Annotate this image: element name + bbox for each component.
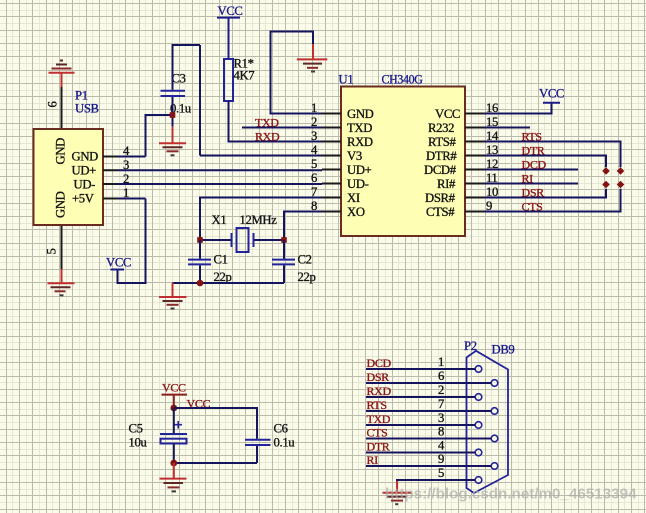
wire DSR# pin10 from inner vertical xyxy=(484,189,606,198)
svg-text:DSR: DSR xyxy=(367,370,390,384)
svg-text:12MHz: 12MHz xyxy=(240,213,278,227)
svg-text:VCC: VCC xyxy=(435,107,460,121)
svg-text:VCC: VCC xyxy=(539,87,564,101)
ground under C3 xyxy=(159,126,186,155)
svg-text:4: 4 xyxy=(311,143,318,157)
svg-text:C5: C5 xyxy=(129,422,143,436)
junction diamond inner top xyxy=(602,167,610,175)
svg-text:5: 5 xyxy=(311,157,317,171)
wire C3 bottom to junction xyxy=(172,97,174,128)
svg-text:RTS: RTS xyxy=(522,130,542,144)
junction diamond outer top xyxy=(617,167,625,175)
ground under C5 xyxy=(160,463,187,491)
svg-text:RTS: RTS xyxy=(367,398,387,412)
capacitor C2 xyxy=(272,260,295,265)
wire R232 stub pin15 xyxy=(484,127,530,129)
svg-text:DCD#: DCD# xyxy=(424,163,457,177)
wire C6 bottom to rail xyxy=(256,446,258,463)
svg-text:RXD: RXD xyxy=(255,130,280,144)
svg-text:X1: X1 xyxy=(212,213,227,227)
svg-text:5: 5 xyxy=(45,249,59,255)
svg-text:C2: C2 xyxy=(298,253,312,267)
svg-text:DCD: DCD xyxy=(522,158,547,172)
wire DTR row xyxy=(366,452,475,454)
svg-text:RXD: RXD xyxy=(367,384,392,398)
svg-text:GND: GND xyxy=(347,107,374,121)
wire VCC rail to C6 xyxy=(174,408,257,439)
op-amp U1 body (IC CH340G) xyxy=(341,87,465,237)
wire P1 GND to C3 bottom node xyxy=(117,115,173,157)
DB9 hole pin6 xyxy=(491,380,498,387)
junction C1 rail xyxy=(197,280,204,287)
svg-text:RI#: RI# xyxy=(437,177,456,191)
wire TXD row xyxy=(366,424,475,426)
svg-text:GND: GND xyxy=(54,138,68,165)
svg-text:22p: 22p xyxy=(214,270,232,284)
svg-text:CH340G: CH340G xyxy=(382,73,423,87)
svg-text:DTR: DTR xyxy=(522,144,545,158)
wire P1 pin6 to ground xyxy=(61,87,63,129)
svg-text:TXD: TXD xyxy=(367,412,391,426)
DB9 hole pin8 xyxy=(491,435,498,442)
DB9 hole pin2 xyxy=(475,394,482,401)
ground under P1 xyxy=(48,269,75,295)
DB9 hole pin9 xyxy=(491,463,498,470)
junction diamond inner bottom xyxy=(602,181,610,189)
svg-text:DCD: DCD xyxy=(367,356,392,370)
DB9 hole pin1 xyxy=(475,366,482,373)
svg-text:XO: XO xyxy=(347,205,365,219)
ground (inverted, above P1 pin 6) xyxy=(49,61,75,88)
wire VCC node to C5 xyxy=(173,408,175,433)
U1 left pin stubs xyxy=(322,114,341,212)
svg-text:2: 2 xyxy=(438,383,444,397)
svg-text:DSR#: DSR# xyxy=(425,191,456,205)
wire DCD row xyxy=(366,368,475,370)
svg-text:UD+: UD+ xyxy=(72,164,97,178)
power symbol VCC near P1 xyxy=(106,256,131,270)
wire R1 bottom to RXD row xyxy=(229,101,323,142)
svg-text:GND: GND xyxy=(54,191,68,218)
wire P1 pin5 down xyxy=(61,226,63,270)
wire crystal left to C1 xyxy=(199,240,201,259)
wire VCC pin16 xyxy=(484,103,552,114)
DB9 hole pin5 xyxy=(475,477,482,484)
svg-text:V3: V3 xyxy=(347,149,362,163)
svg-text:3: 3 xyxy=(438,411,444,425)
U1 right pin stubs xyxy=(465,114,484,212)
wire crystal row left xyxy=(200,239,231,241)
svg-text:DB9: DB9 xyxy=(492,343,515,357)
svg-text:U1: U1 xyxy=(339,73,354,87)
svg-text:4: 4 xyxy=(438,439,445,453)
power symbol VCC right of U1 xyxy=(539,87,564,103)
svg-text:1: 1 xyxy=(438,355,444,369)
ground top right of loop xyxy=(297,44,328,72)
capacitor C6 xyxy=(245,440,271,445)
svg-text:5: 5 xyxy=(438,466,444,480)
svg-text:RTS#: RTS# xyxy=(428,135,456,149)
connector P1 body xyxy=(34,129,104,225)
junction C5 bottom node xyxy=(170,460,177,467)
svg-text:4K7: 4K7 xyxy=(234,69,255,83)
svg-text:P1: P1 xyxy=(75,89,88,103)
svg-text:8: 8 xyxy=(438,425,444,439)
svg-text:9: 9 xyxy=(438,452,444,466)
wire DTR# pin13 to inner vertical xyxy=(484,156,606,168)
svg-text:UD+: UD+ xyxy=(347,163,372,177)
svg-text:7: 7 xyxy=(438,397,444,411)
svg-text:C6: C6 xyxy=(274,422,288,436)
svg-text:C1: C1 xyxy=(214,253,228,267)
svg-text:TXD: TXD xyxy=(255,116,279,130)
ground under P2 xyxy=(383,481,412,504)
svg-text:C3: C3 xyxy=(172,72,186,86)
svg-text:VCC: VCC xyxy=(162,381,186,395)
wire C3 top to V3 row xyxy=(173,45,323,156)
capacitor C1 xyxy=(188,260,211,265)
svg-text:RI: RI xyxy=(367,453,379,467)
capacitor C3 xyxy=(161,91,186,96)
svg-text:UD-: UD- xyxy=(74,178,96,192)
svg-text:0.1u: 0.1u xyxy=(274,436,296,450)
resistor R1 xyxy=(224,59,233,101)
power symbol VCC above C5 (red) xyxy=(162,381,188,409)
wire crystal row right xyxy=(255,239,285,241)
junction crystal left xyxy=(197,237,203,243)
pin stubs P1 right side xyxy=(103,157,117,199)
wire crystal right to C2 xyxy=(283,240,285,259)
svg-text:+5V: +5V xyxy=(72,192,95,206)
svg-text:6: 6 xyxy=(46,102,60,108)
wire DCD# pin12 stub xyxy=(484,169,578,171)
wire DSR row xyxy=(366,382,491,384)
wire pin5 row with ground drop xyxy=(397,480,475,482)
wire UD+ long run to U1 pin5 xyxy=(117,169,322,171)
svg-text:RI: RI xyxy=(522,172,534,186)
svg-text:DSR: DSR xyxy=(522,186,545,200)
svg-text:1: 1 xyxy=(311,101,317,115)
wire RXD row xyxy=(366,396,475,398)
wire RTS# pin14 to outer vertical xyxy=(484,142,621,168)
svg-text:CTS: CTS xyxy=(522,200,543,214)
crystal X1 xyxy=(232,228,254,252)
wire CTS# pin9 from outer vertical xyxy=(484,189,621,212)
junction C3 bottom xyxy=(170,112,176,118)
wire C1 bottom to rail xyxy=(199,265,201,283)
svg-text:VCC: VCC xyxy=(218,4,243,18)
capacitor C5 xyxy=(160,434,187,444)
svg-text:RXD: RXD xyxy=(347,135,373,149)
wire RI row xyxy=(366,465,491,467)
svg-text:3: 3 xyxy=(311,129,317,143)
svg-text:https://blog.csdn.net/m0_46513: https://blog.csdn.net/m0_46513394 xyxy=(385,486,637,503)
svg-text:GND: GND xyxy=(72,150,99,164)
wire UD- long run to U1 pin6 xyxy=(117,183,322,185)
svg-text:UD-: UD- xyxy=(347,177,369,191)
wire bottom rail C5 C6 xyxy=(174,462,257,464)
ground under crystal rail xyxy=(159,283,187,309)
wire C5 bottom to rail xyxy=(173,444,175,464)
svg-text:DTR#: DTR# xyxy=(426,149,457,163)
wire CTS row xyxy=(366,438,491,440)
junction VCC node xyxy=(170,405,177,412)
svg-text:22p: 22p xyxy=(298,270,316,284)
svg-text:2: 2 xyxy=(311,115,317,129)
capacitor C5 plus sign xyxy=(175,421,183,429)
wire XO pin8 to crystal right xyxy=(284,212,322,241)
svg-text:XI: XI xyxy=(347,191,360,205)
connector P2 DB9 body xyxy=(467,351,509,493)
svg-text:6: 6 xyxy=(311,171,317,185)
svg-text:USB: USB xyxy=(75,102,99,116)
wire RI# pin11 stub xyxy=(484,183,578,185)
svg-text:CTS#: CTS# xyxy=(426,205,455,219)
DB9 hole pin3 xyxy=(475,422,482,429)
svg-text:6: 6 xyxy=(438,369,444,383)
wire RTS row xyxy=(366,410,491,412)
DB9 hole pin7 xyxy=(491,408,498,415)
wire TXD stub xyxy=(242,127,322,129)
junction crystal right xyxy=(281,237,287,243)
wire ground rail under crystal xyxy=(173,282,285,284)
svg-text:DTR: DTR xyxy=(367,440,390,454)
wire U1 pin1 GND loop xyxy=(271,32,323,114)
svg-text:TXD: TXD xyxy=(347,121,372,135)
wire +5V to VCC symbol xyxy=(117,199,146,284)
svg-text:CTS: CTS xyxy=(367,426,388,440)
power symbol VCC above R1 xyxy=(217,4,243,59)
wire C2 bottom to rail xyxy=(283,265,285,283)
svg-text:10u: 10u xyxy=(129,436,148,450)
junction diamond outer bottom xyxy=(617,181,625,189)
svg-text:VCC: VCC xyxy=(106,256,131,270)
DB9 hole pin4 xyxy=(475,449,482,456)
svg-text:R232: R232 xyxy=(428,121,454,135)
wire XI pin7 to crystal left xyxy=(200,198,322,241)
